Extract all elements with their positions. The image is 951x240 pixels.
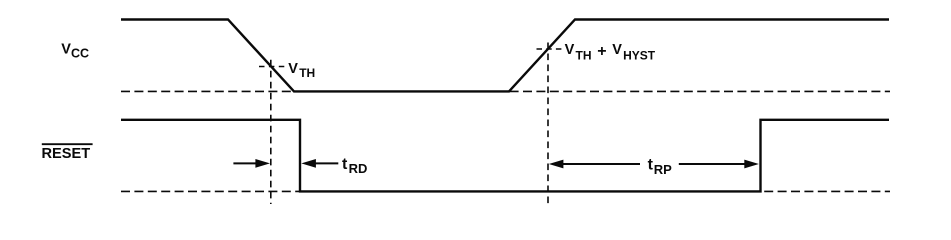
arrow tRD right-side (points left at RESET falling edge) <box>301 159 338 168</box>
svg-text:V: V <box>288 61 298 77</box>
svg-text:V: V <box>612 42 622 58</box>
node VCC label <box>61 41 89 60</box>
svg-text:TH: TH <box>299 66 315 80</box>
node RESET label (active-low, overline) <box>42 144 93 162</box>
label tRP <box>648 156 673 176</box>
svg-text:V: V <box>565 42 575 58</box>
node VTH + VHYST label <box>565 42 656 62</box>
svg-text:V: V <box>61 41 71 57</box>
svg-text:RESET: RESET <box>42 146 91 162</box>
svg-text:t: t <box>648 156 654 173</box>
wire RESET low dashed reference line <box>121 190 890 192</box>
wire VTH level tick dashes <box>259 66 287 68</box>
svg-text:RP: RP <box>654 162 672 177</box>
svg-text:t: t <box>342 156 348 173</box>
wire vertical dashed line at VTH crossing <box>270 60 272 204</box>
label tRD <box>342 156 367 176</box>
svg-text:CC: CC <box>71 47 89 61</box>
svg-text:+: + <box>597 43 606 60</box>
wire VTH+VHYST level tick dashes <box>537 48 564 50</box>
arrow tRD left-side (points right at dashed line) <box>233 159 270 168</box>
wire VCC threshold dashed reference line <box>121 90 890 92</box>
wire RESET waveform <box>121 120 889 192</box>
arrow tRP right head (points right at RESET rising edge) <box>679 160 759 169</box>
svg-text:RD: RD <box>349 161 368 176</box>
svg-text:HYST: HYST <box>623 48 656 62</box>
node VTH label <box>288 61 315 80</box>
svg-text:TH: TH <box>576 48 592 62</box>
wire VCC waveform <box>121 20 889 92</box>
wire vertical dashed line at VTH+VHYST crossing <box>547 43 549 205</box>
arrow tRP left head (points left at dashed line) <box>549 160 640 169</box>
